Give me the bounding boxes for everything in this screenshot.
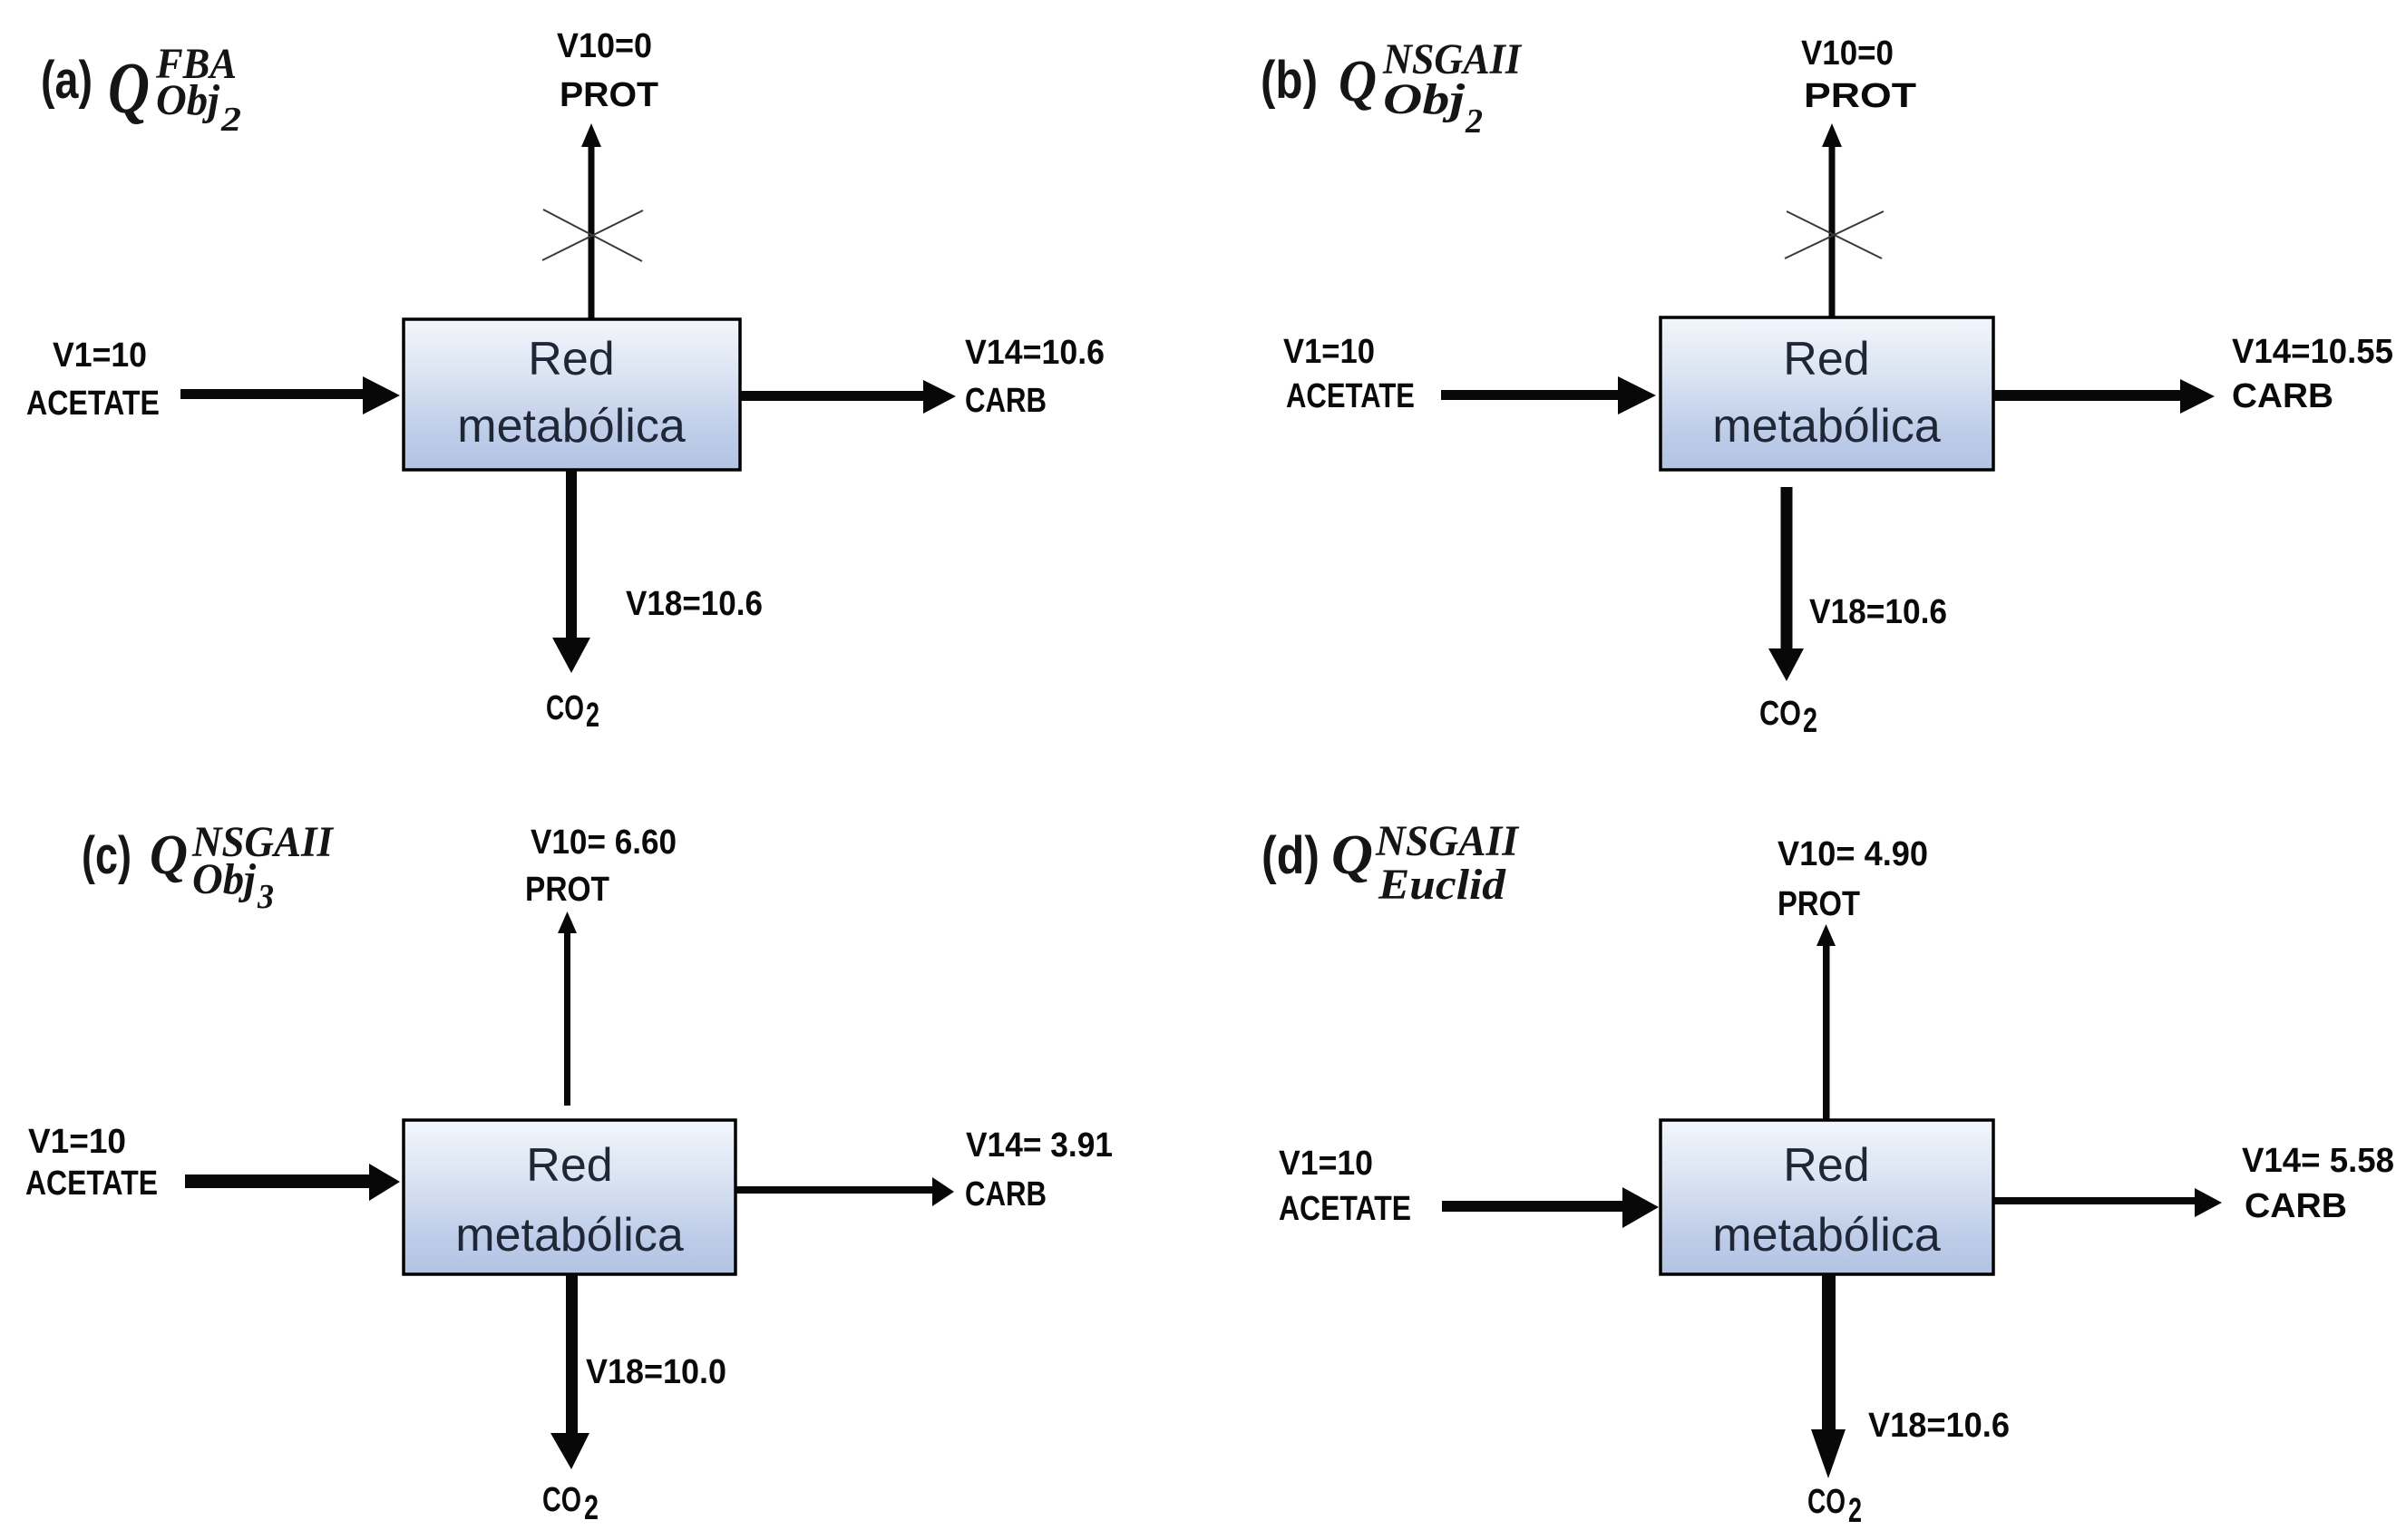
blocked-flux X mark (b) [1785, 211, 1884, 258]
svg-text:(a): (a) [41, 51, 93, 110]
svg-text:V1=10: V1=10 [28, 1123, 126, 1161]
svg-text:2: 2 [584, 1489, 599, 1527]
arrow V14 output (d) [1993, 1188, 2222, 1217]
arrow V1 input (b) [1441, 376, 1656, 414]
svg-text:V10= 6.60: V10= 6.60 [531, 824, 677, 862]
svg-text:Euclid: Euclid [1378, 861, 1506, 909]
svg-text:ACETATE: ACETATE [1286, 377, 1415, 415]
svg-text:CARB: CARB [965, 382, 1047, 420]
svg-text:V1=10: V1=10 [1283, 333, 1375, 371]
svg-text:PROT: PROT [525, 871, 609, 909]
arrow V10 up (b) [1822, 123, 1842, 317]
svg-text:metabólica: metabólica [1712, 1209, 1941, 1262]
svg-text:V18=10.6: V18=10.6 [626, 585, 763, 623]
svg-text:V1=10: V1=10 [1279, 1145, 1373, 1183]
panel (a) caption: (a) Q^FBA_Obj2 [41, 40, 241, 139]
svg-text:V18=10.6: V18=10.6 [1809, 593, 1947, 631]
node box (d): Red metabólica [1661, 1120, 1993, 1274]
svg-text:V14= 5.58: V14= 5.58 [2242, 1142, 2394, 1180]
metabolite label CO2 (a) [546, 689, 599, 735]
svg-text:Obj: Obj [1383, 75, 1466, 123]
svg-text:2: 2 [1465, 102, 1483, 141]
node box (c): Red metabólica [404, 1120, 735, 1274]
svg-text:ACETATE: ACETATE [1279, 1190, 1411, 1228]
svg-text:(d): (d) [1261, 826, 1320, 885]
svg-text:V1=10: V1=10 [53, 336, 147, 375]
svg-text:Red: Red [526, 1139, 612, 1192]
svg-text:V14=10.6: V14=10.6 [965, 334, 1105, 372]
svg-text:Red: Red [1783, 333, 1869, 385]
svg-text:CARB: CARB [965, 1175, 1047, 1213]
arrow V18 down (c) [550, 1274, 589, 1469]
metabolite label CO2 (d) [1807, 1483, 1862, 1530]
node box (a): Red metabólica [404, 319, 740, 470]
svg-text:NSGAII: NSGAII [1375, 817, 1520, 865]
svg-text:PROT: PROT [1778, 885, 1860, 923]
arrow V10 up (d) [1816, 924, 1836, 1120]
arrow V1 input (d) [1442, 1187, 1659, 1228]
svg-text:Red: Red [528, 333, 614, 385]
svg-text:V18=10.6: V18=10.6 [1868, 1407, 2010, 1445]
svg-text:2: 2 [1848, 1492, 1862, 1530]
svg-text:Q: Q [1331, 824, 1373, 886]
svg-text:2: 2 [220, 101, 241, 139]
panel (c) caption: (c) Q^NSGAII_Obj3 [82, 818, 335, 916]
svg-text:metabólica: metabólica [1712, 400, 1941, 453]
svg-text:V10= 4.90: V10= 4.90 [1778, 835, 1928, 873]
metabolite label CO2 (c) [542, 1481, 599, 1527]
panel (b) caption: (b) Q^NSGAII_Obj2 [1261, 35, 1523, 141]
arrow V1 input (a) [180, 376, 400, 414]
svg-text:CO: CO [1807, 1483, 1846, 1521]
svg-text:Obj: Obj [192, 855, 257, 903]
svg-text:ACETATE: ACETATE [26, 385, 160, 423]
svg-text:V18=10.0: V18=10.0 [586, 1353, 726, 1391]
arrow V18 down (d) [1811, 1274, 1846, 1478]
panel (d) caption: (d) Q^NSGAII_Euclid [1261, 817, 1520, 909]
blocked-flux X mark (a) [542, 210, 643, 261]
svg-text:(c): (c) [82, 826, 131, 885]
arrow V18 down (a) [552, 470, 590, 673]
svg-text:Q: Q [1339, 48, 1377, 114]
arrow V14 output (b) [1993, 379, 2215, 414]
arrow V10 up (c) [558, 911, 577, 1106]
svg-text:V10=0: V10=0 [1801, 34, 1894, 73]
svg-text:metabólica: metabólica [455, 1209, 684, 1262]
svg-text:CARB: CARB [2232, 377, 2333, 415]
svg-text:V10=0: V10=0 [557, 27, 652, 65]
svg-text:Q: Q [108, 49, 150, 129]
svg-text:Red: Red [1783, 1139, 1869, 1192]
svg-text:CO: CO [546, 689, 584, 727]
svg-text:(b): (b) [1261, 51, 1318, 110]
svg-text:ACETATE: ACETATE [25, 1165, 158, 1203]
svg-text:PROT: PROT [1804, 77, 1916, 115]
svg-text:2: 2 [1803, 702, 1817, 740]
arrow V14 output (a) [740, 380, 956, 414]
arrow V1 input (c) [185, 1164, 400, 1201]
metabolite label CO2 (b) [1759, 695, 1817, 740]
svg-text:2: 2 [586, 697, 599, 735]
svg-text:metabólica: metabólica [457, 400, 686, 453]
node box (b): Red metabólica [1661, 317, 1993, 470]
arrow V14 output (c) [735, 1177, 954, 1206]
svg-text:V14=10.55: V14=10.55 [2232, 333, 2393, 371]
svg-text:CO: CO [542, 1481, 581, 1519]
svg-text:CARB: CARB [2245, 1187, 2347, 1225]
svg-text:PROT: PROT [560, 76, 658, 114]
svg-text:V14= 3.91: V14= 3.91 [966, 1126, 1113, 1165]
arrow V10 up (a) [581, 123, 601, 319]
svg-text:CO: CO [1759, 695, 1801, 733]
svg-text:Obj: Obj [156, 76, 220, 124]
arrow V18 down (b) [1768, 487, 1804, 681]
svg-text:Q: Q [150, 824, 188, 886]
svg-text:3: 3 [257, 878, 274, 916]
